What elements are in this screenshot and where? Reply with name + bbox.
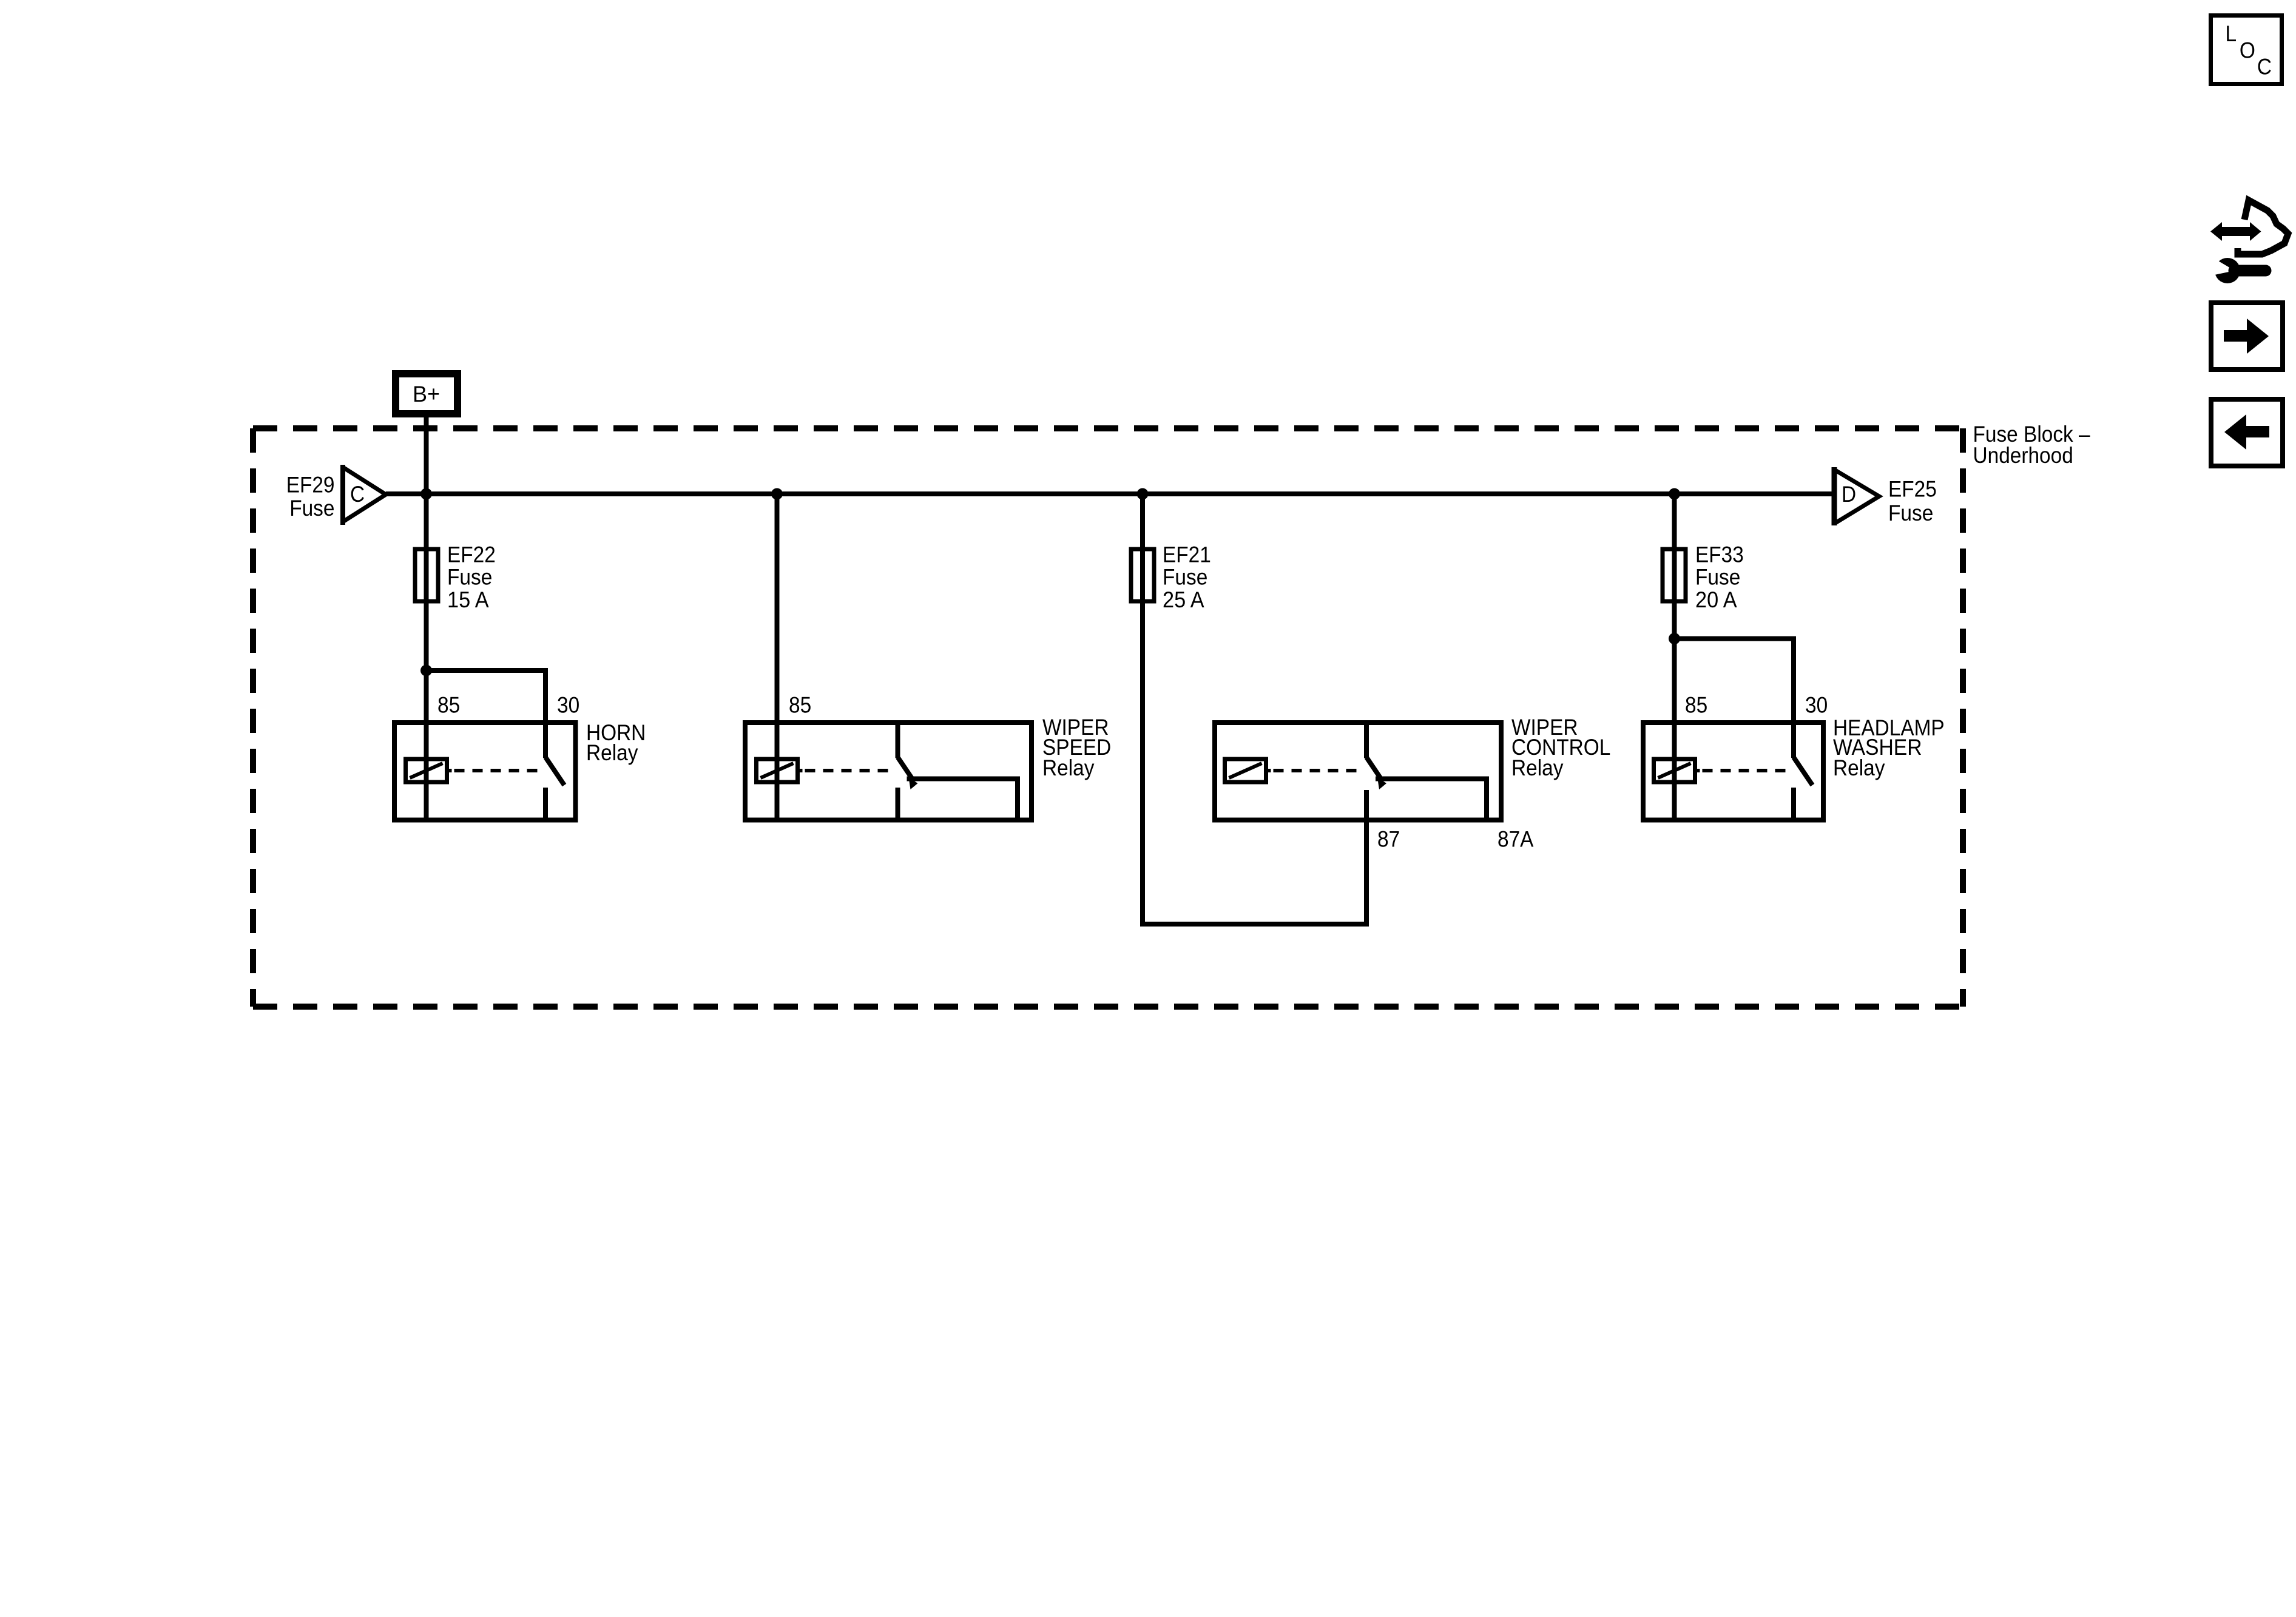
svg-text:Fuse: Fuse xyxy=(289,496,334,521)
svg-text:87: 87 xyxy=(1377,827,1400,852)
relay WIPER SPEED: case outline xyxy=(745,723,1032,820)
wire: bus through EF21 fuse to wiper control pin 87 xyxy=(1143,494,1366,924)
svg-text:B+: B+ xyxy=(413,382,440,407)
relay HORN: case outline xyxy=(394,723,576,820)
wire: branch to headlamp washer pin 30 xyxy=(1675,639,1794,758)
label WIPER CONTROL Relay xyxy=(1511,715,1610,780)
svg-text:30: 30 xyxy=(1805,693,1828,718)
svg-text:Relay: Relay xyxy=(1511,755,1564,780)
relay HORN: coil-to-contact actuation dashed link xyxy=(454,769,542,772)
svg-text:C: C xyxy=(2257,55,2272,79)
label EF22 Fuse 15 A xyxy=(447,542,496,613)
svg-text:25 A: 25 A xyxy=(1163,587,1204,612)
svg-text:C: C xyxy=(350,482,365,507)
relay HEADLAMP WASHER Relay xyxy=(1643,723,1823,820)
relay WIPER SPEED Relay xyxy=(745,723,1032,820)
svg-text:Relay: Relay xyxy=(1833,755,1885,780)
relay WIPER SPEED: coil-to-contact actuation dashed link xyxy=(805,769,894,772)
svg-text:EF22: EF22 xyxy=(447,542,496,567)
relay HORN Relay xyxy=(394,723,576,820)
wire: B+ to bus and horn branch xyxy=(424,414,429,820)
node: bus junction wiper speed xyxy=(771,488,783,500)
forward-arrow box xyxy=(2211,303,2283,370)
svg-text:O: O xyxy=(2240,38,2255,62)
svg-text:Fuse: Fuse xyxy=(447,565,492,590)
relay HORN: switch blade xyxy=(545,757,564,785)
label EF33 Fuse 20 A xyxy=(1695,542,1744,613)
relay HEADLAMP WASHER: stationary contact 87 stub xyxy=(1791,788,1796,820)
relay WIPER SPEED: stationary contact 87 stub xyxy=(896,788,900,820)
node: bus junction EF21 xyxy=(1137,488,1149,500)
label HORN Relay xyxy=(586,720,646,765)
relay HEADLAMP WASHER: switch blade xyxy=(1794,757,1812,785)
node: junction to horn pin 30 xyxy=(420,665,432,677)
relay WIPER SPEED: wire pin 30 drop to switch pivot xyxy=(896,723,900,758)
connector D to EF25 Fuse xyxy=(1834,467,1879,525)
fuse EF33 20A xyxy=(1663,549,1686,601)
relay HEADLAMP WASHER: coil xyxy=(1654,759,1700,782)
svg-text:EF33: EF33 xyxy=(1695,542,1744,567)
fuse EF21 25A xyxy=(1131,549,1154,601)
svg-text:EF21: EF21 xyxy=(1163,542,1211,567)
power node B+ xyxy=(396,374,458,414)
relay WIPER SPEED: switch blade xyxy=(898,757,918,789)
relay HEADLAMP WASHER: coil-to-contact actuation dashed link xyxy=(1703,769,1791,772)
relay WIPER SPEED: coil xyxy=(757,759,803,782)
relay HEADLAMP WASHER: wire pin 30 drop to switch pivot xyxy=(1791,723,1796,758)
svg-text:20 A: 20 A xyxy=(1695,587,1737,612)
svg-text:EF29: EF29 xyxy=(286,473,335,498)
Fuse Block - Underhood dashed boundary xyxy=(253,428,1963,1007)
relay HEADLAMP WASHER: case outline xyxy=(1643,723,1823,820)
relay WIPER CONTROL Relay xyxy=(1215,723,1501,820)
node: bus junction EF33 xyxy=(1669,488,1680,500)
label EF25 Fuse xyxy=(1888,477,1937,525)
connector-view box LOC xyxy=(2211,16,2282,84)
wire: bus through EF33 fuse to headlamp washer coil xyxy=(1672,494,1677,820)
svg-text:85: 85 xyxy=(1685,693,1707,718)
svg-text:30: 30 xyxy=(557,693,579,718)
relay WIPER CONTROL: wire pin 30 drop to switch pivot xyxy=(1364,723,1369,758)
svg-text:Fuse: Fuse xyxy=(1888,501,1933,525)
svg-text:87A: 87A xyxy=(1497,827,1534,852)
node: junction to headlamp washer pin 30 xyxy=(1669,633,1680,644)
relay WIPER CONTROL: case outline xyxy=(1215,723,1501,820)
service/repair icon xyxy=(2210,200,2288,283)
relay WIPER CONTROL: contact 87A output wire xyxy=(1376,779,1487,820)
svg-text:Underhood: Underhood xyxy=(1973,443,2073,468)
label EF29 Fuse xyxy=(286,473,335,521)
wire: bus to wiper speed relay coil xyxy=(775,494,780,820)
label EF21 Fuse 25 A xyxy=(1163,542,1211,613)
relay WIPER CONTROL: coil-to-contact actuation dashed link xyxy=(1274,769,1363,772)
fuse EF22 15A xyxy=(415,549,438,601)
svg-text:Fuse: Fuse xyxy=(1163,565,1207,590)
svg-text:85: 85 xyxy=(437,693,460,718)
svg-text:EF25: EF25 xyxy=(1888,477,1937,502)
relay WIPER CONTROL: switch blade xyxy=(1366,757,1386,789)
relay WIPER CONTROL: coil xyxy=(1225,759,1271,782)
svg-text:L: L xyxy=(2226,21,2237,46)
connector C to EF29 Fuse xyxy=(343,465,386,525)
svg-text:Relay: Relay xyxy=(586,740,638,765)
label Fuse Block - Underhood xyxy=(1973,422,2090,468)
relay HORN: stationary contact 87 stub xyxy=(543,788,548,820)
label WIPER SPEED Relay xyxy=(1042,715,1111,780)
wire: branch to horn pin 30 xyxy=(427,670,546,758)
relay HORN: wire pin 30 drop to switch pivot xyxy=(543,723,548,758)
svg-text:D: D xyxy=(1842,482,1856,507)
wire: main B+ bus xyxy=(386,491,1834,496)
svg-text:Fuse: Fuse xyxy=(1695,565,1740,590)
label HEADLAMP WASHER Relay xyxy=(1833,715,1945,780)
relay HORN: coil xyxy=(406,759,452,782)
svg-text:85: 85 xyxy=(789,693,811,718)
back-arrow box xyxy=(2211,399,2283,466)
svg-text:Relay: Relay xyxy=(1042,755,1095,780)
node: bus junction at horn branch xyxy=(420,488,432,500)
svg-text:15 A: 15 A xyxy=(447,587,489,612)
relay WIPER SPEED: contact 87A output wire xyxy=(907,779,1018,820)
